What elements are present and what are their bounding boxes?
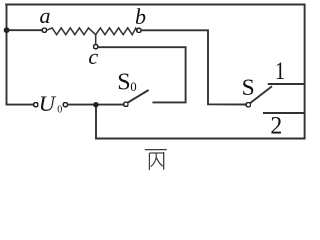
switch S — [246, 102, 251, 107]
label 丙 (hand-drawn CJK glyph) — [145, 148, 167, 170]
source U0 terminals — [34, 102, 38, 106]
svg-text:b: b — [135, 4, 146, 29]
wire top bus — [6, 4, 304, 6]
svg-text:a: a — [40, 3, 51, 28]
switch S0 — [124, 102, 129, 107]
contact 2 — [264, 112, 305, 114]
node junction at U0/S0/bottom — [93, 102, 98, 107]
resistor ab (zigzag with tap) — [47, 28, 137, 35]
wire from c to S0 right contact — [98, 47, 186, 102]
terminal b — [137, 28, 141, 32]
svg-text:0: 0 — [130, 80, 136, 94]
svg-text:S: S — [117, 69, 130, 95]
slider tap wire to c — [95, 35, 97, 45]
terminal c — [94, 44, 98, 48]
svg-text:1: 1 — [275, 57, 285, 84]
wire left bus down to U0 — [7, 5, 34, 105]
wire bottom bus up to junction — [96, 105, 305, 139]
svg-text:S: S — [242, 75, 255, 101]
svg-text:c: c — [88, 44, 98, 69]
svg-text:U: U — [39, 91, 57, 116]
node junction top-left — [4, 27, 10, 33]
terminal a — [42, 28, 46, 32]
svg-text:2: 2 — [270, 112, 282, 140]
svg-text:0: 0 — [57, 104, 62, 115]
wire U0 right terminal to junction to S0 — [68, 104, 124, 106]
wire right bus — [304, 5, 306, 139]
wire node dot to terminal a — [7, 29, 43, 31]
contact 1 — [269, 83, 305, 85]
wire from b down to switch S — [141, 30, 246, 104]
